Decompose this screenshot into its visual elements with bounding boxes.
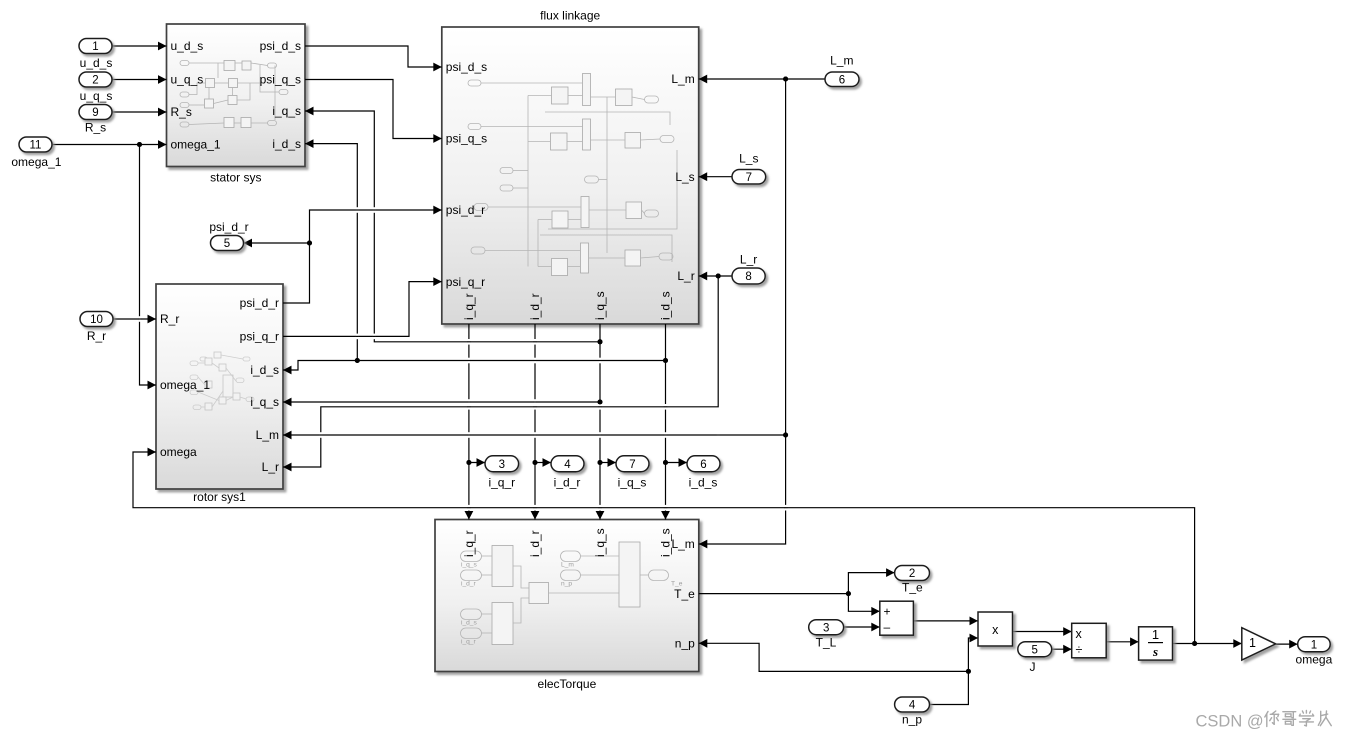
svg-text:psi_d_r: psi_d_r bbox=[240, 296, 279, 310]
svg-text:i_q_r: i_q_r bbox=[461, 639, 476, 646]
svg-text:R_s: R_s bbox=[171, 105, 192, 119]
svg-text:n_p: n_p bbox=[561, 581, 572, 588]
outport 4 i_d_r bbox=[551, 456, 584, 472]
svg-text:5: 5 bbox=[224, 238, 230, 250]
wire R_r port10 to rotor bbox=[113, 315, 156, 324]
sum block bbox=[880, 601, 914, 635]
title flux linkage bbox=[540, 9, 600, 23]
wire divide to integrator bbox=[1106, 637, 1138, 646]
wire crossing hops bbox=[138, 207, 787, 510]
svg-text:i_d_s: i_d_s bbox=[689, 476, 718, 490]
label L_s bbox=[739, 152, 758, 166]
svg-text:L_s: L_s bbox=[675, 170, 694, 184]
svg-text:psi_q_s: psi_q_s bbox=[446, 132, 487, 146]
subsystem rotor sys1 bbox=[156, 284, 283, 489]
wire psi_q_s stator to flux bbox=[305, 80, 442, 143]
wire i_d_r column flux to elecTorque bbox=[531, 324, 540, 520]
label J bbox=[1030, 660, 1036, 674]
inport 7 L_s bbox=[732, 170, 766, 185]
wire i_q_s feedback to rotor bbox=[283, 398, 600, 407]
svg-text:L_r: L_r bbox=[677, 269, 694, 283]
svg-text:÷: ÷ bbox=[1076, 643, 1083, 657]
svg-text:J: J bbox=[1030, 660, 1036, 674]
label T_L bbox=[816, 636, 837, 650]
svg-text:i_d_r: i_d_r bbox=[554, 476, 581, 490]
svg-text:s: s bbox=[1152, 644, 1158, 659]
svg-text:1: 1 bbox=[1152, 627, 1159, 642]
svg-text:i_q_s: i_q_s bbox=[593, 291, 607, 320]
svg-text:1: 1 bbox=[92, 41, 98, 53]
svg-text:3: 3 bbox=[499, 459, 505, 471]
svg-text:i_d_r: i_d_r bbox=[528, 530, 542, 557]
svg-text:L_s: L_s bbox=[739, 152, 758, 166]
inport 1 u_d_s bbox=[79, 39, 112, 54]
label i_q_r bbox=[488, 476, 515, 490]
svg-text:R_r: R_r bbox=[87, 329, 106, 343]
wire integrator to gain bbox=[1173, 639, 1242, 648]
svg-text:i_q_r: i_q_r bbox=[462, 293, 476, 320]
wire u_d_s port1 to stator bbox=[112, 42, 167, 51]
label R_s bbox=[85, 121, 106, 135]
svg-text:5: 5 bbox=[1032, 644, 1038, 656]
rotor sys1 port labels bbox=[160, 296, 279, 474]
wire T_e branch to port2 bbox=[848, 568, 894, 593]
svg-text:6: 6 bbox=[839, 74, 845, 86]
outport 1 omega bbox=[1298, 637, 1331, 652]
wire gain to port1 bbox=[1276, 640, 1298, 649]
watermark CSDN bbox=[1196, 711, 1332, 731]
wire psi_d_s stator to flux bbox=[305, 46, 442, 71]
product block x bbox=[978, 612, 1013, 646]
svg-text:n_p: n_p bbox=[902, 713, 922, 727]
svg-text:L_m: L_m bbox=[256, 428, 279, 442]
svg-text:L_r: L_r bbox=[262, 460, 279, 474]
wire i_q_r column flux to elecTorque bbox=[465, 324, 474, 520]
outport 3 i_q_r bbox=[485, 456, 519, 472]
wire L_m trunk to elecTorque bbox=[699, 79, 788, 548]
svg-text:R_r: R_r bbox=[160, 312, 179, 326]
svg-text:L_m: L_m bbox=[671, 537, 694, 551]
wire i_q_s column flux to elecTorque bbox=[596, 324, 605, 520]
svg-text:i_q_r: i_q_r bbox=[488, 476, 515, 490]
svg-text:i_d_s: i_d_s bbox=[250, 363, 279, 377]
svg-text:x: x bbox=[992, 623, 999, 637]
svg-text:i_q_s: i_q_s bbox=[461, 562, 477, 569]
outport 2 T_e bbox=[895, 566, 930, 581]
title elecTorque bbox=[538, 677, 597, 691]
svg-text:i_q_r: i_q_r bbox=[462, 530, 476, 557]
outport 5 psi_d_r bbox=[211, 236, 244, 251]
stator sys port labels bbox=[171, 39, 302, 152]
divide block bbox=[1072, 623, 1107, 658]
svg-text:L_m: L_m bbox=[671, 72, 694, 86]
svg-text:2: 2 bbox=[909, 568, 915, 580]
svg-text:x: x bbox=[1076, 627, 1083, 641]
svg-text:i_d_r: i_d_r bbox=[528, 293, 542, 320]
svg-text:11: 11 bbox=[30, 140, 42, 152]
svg-text:i_q_s: i_q_s bbox=[250, 395, 279, 409]
outport 7 i_q_s bbox=[616, 456, 649, 472]
svg-text:10: 10 bbox=[90, 314, 103, 326]
flux linkage port labels bbox=[446, 60, 695, 320]
svg-text:T_e: T_e bbox=[902, 581, 923, 595]
wire i_d_s branch to port6 bbox=[666, 458, 688, 467]
svg-text:i_d_s: i_d_s bbox=[659, 291, 673, 320]
svg-text:7: 7 bbox=[629, 459, 635, 471]
svg-text:4: 4 bbox=[909, 700, 916, 712]
svg-text:omega_1: omega_1 bbox=[160, 378, 210, 392]
label u_q_s bbox=[80, 89, 113, 103]
inport 11 omega_1 bbox=[19, 137, 52, 152]
svg-text:u_q_s: u_q_s bbox=[80, 89, 113, 103]
svg-text:elecTorque: elecTorque bbox=[538, 677, 597, 691]
svg-text:9: 9 bbox=[92, 107, 98, 119]
wire omega_1 port11 to stator bbox=[52, 140, 167, 149]
svg-text:omega: omega bbox=[1296, 653, 1333, 667]
svg-text:psi_d_r: psi_d_r bbox=[209, 220, 248, 234]
elecTorque interior preview bbox=[461, 542, 683, 646]
svg-text:8: 8 bbox=[745, 271, 751, 283]
wire psi_d_r branch to port5 bbox=[244, 239, 310, 248]
svg-text:L_m: L_m bbox=[830, 54, 853, 68]
wire L_r branch to rotor bbox=[283, 276, 718, 471]
label omega bbox=[1296, 653, 1333, 667]
svg-text:psi_d_r: psi_d_r bbox=[446, 203, 485, 217]
wire omega_1 branch to rotor bbox=[140, 145, 157, 390]
svg-text:stator sys: stator sys bbox=[210, 171, 261, 185]
svg-text:i_q_s: i_q_s bbox=[272, 104, 301, 118]
svg-text:psi_q_r: psi_q_r bbox=[240, 330, 279, 344]
wire R_s port9 to stator bbox=[112, 108, 167, 117]
wire L_m port6 to flux bbox=[699, 75, 825, 84]
wire i_d_r branch to port4 bbox=[535, 458, 551, 467]
svg-text:1: 1 bbox=[1249, 636, 1256, 650]
inport 3 T_L bbox=[809, 620, 844, 635]
label i_d_s bbox=[689, 476, 718, 490]
label psi_d_r bbox=[209, 220, 248, 234]
label L_m bbox=[830, 54, 853, 68]
wire omega feedback loop bbox=[133, 448, 1195, 644]
wire i_q_s feedback to stator bbox=[305, 107, 600, 342]
svg-text:i_q_s: i_q_s bbox=[593, 528, 607, 557]
rotor sys1 interior preview bbox=[190, 352, 254, 410]
svg-text:psi_q_r: psi_q_r bbox=[446, 275, 485, 289]
wire n_p branch to elecTorque bbox=[699, 639, 969, 672]
svg-text:2: 2 bbox=[92, 75, 98, 87]
svg-text:omega_1: omega_1 bbox=[11, 155, 61, 169]
svg-text:omega_1: omega_1 bbox=[171, 138, 221, 152]
svg-text:n_p: n_p bbox=[675, 637, 695, 651]
svg-text:3: 3 bbox=[823, 622, 829, 634]
svg-text:L_r: L_r bbox=[740, 253, 757, 267]
label R_r bbox=[87, 329, 106, 343]
svg-text:7: 7 bbox=[746, 172, 752, 184]
svg-text:1: 1 bbox=[1311, 639, 1317, 651]
svg-text:u_q_s: u_q_s bbox=[171, 73, 204, 87]
svg-text:i_d_s: i_d_s bbox=[272, 137, 301, 151]
label omega_1 bbox=[11, 155, 61, 169]
subsystem stator sys bbox=[167, 24, 306, 167]
elecTorque port labels bbox=[462, 528, 695, 650]
outport 6 i_d_s bbox=[687, 456, 720, 472]
wire i_q_r branch to port3 bbox=[469, 458, 485, 467]
inport 8 L_r bbox=[732, 268, 765, 284]
stator sys interior preview bbox=[180, 61, 288, 128]
svg-text:psi_q_s: psi_q_s bbox=[260, 73, 301, 87]
svg-text:i_d_r: i_d_r bbox=[461, 581, 476, 588]
label L_r bbox=[740, 253, 757, 267]
svg-text:–: – bbox=[884, 620, 891, 634]
wire n_p port4 to product bbox=[930, 634, 979, 705]
integrator block 1/s bbox=[1139, 627, 1173, 660]
svg-text:T_e: T_e bbox=[674, 587, 695, 601]
wire L_m branch to rotor bbox=[283, 431, 786, 440]
svg-text:R_s: R_s bbox=[85, 121, 106, 135]
inport 9 R_s bbox=[79, 105, 112, 120]
wire i_q_s branch to port7 bbox=[600, 458, 616, 467]
subsystem flux linkage bbox=[442, 27, 699, 324]
wire psi_d_r rotor to flux bbox=[283, 206, 442, 303]
svg-text:T_L: T_L bbox=[816, 636, 837, 650]
wire T_L port3 to sum bbox=[844, 623, 880, 632]
label i_q_s bbox=[618, 476, 647, 490]
inport 4 n_p bbox=[895, 697, 930, 712]
wire T_e elecTorque out bbox=[699, 591, 851, 596]
label i_d_r bbox=[554, 476, 581, 490]
wire i_d_s column flux to elecTorque bbox=[661, 324, 670, 520]
gain block triangle bbox=[1242, 628, 1276, 660]
svg-text:L_m: L_m bbox=[561, 562, 574, 569]
svg-text:u_d_s: u_d_s bbox=[171, 39, 204, 53]
svg-text:+: + bbox=[884, 604, 891, 618]
wire T_e branch to sum bbox=[848, 594, 879, 616]
svg-text:i_d_s: i_d_s bbox=[461, 620, 477, 627]
wire sum to product bbox=[913, 617, 978, 626]
wire J port5 to divide bbox=[1052, 645, 1072, 654]
svg-text:rotor sys1: rotor sys1 bbox=[193, 490, 246, 504]
inport 6 L_m bbox=[825, 72, 859, 87]
label T_e bbox=[902, 581, 923, 595]
svg-text:omega: omega bbox=[160, 445, 197, 459]
wire i_d_s branch to stator bbox=[305, 139, 357, 360]
label n_p bbox=[902, 713, 922, 727]
svg-text:4: 4 bbox=[564, 459, 571, 471]
inport 10 R_r bbox=[80, 312, 113, 327]
svg-text:psi_d_s: psi_d_s bbox=[446, 60, 487, 74]
label u_d_s bbox=[80, 56, 113, 70]
wire product to divide bbox=[1013, 627, 1072, 636]
svg-text:i_q_s: i_q_s bbox=[618, 476, 647, 490]
junction dots redraw bbox=[137, 77, 1197, 674]
wire L_s port7 to flux bbox=[699, 172, 732, 181]
svg-text:u_d_s: u_d_s bbox=[80, 56, 113, 70]
title stator sys bbox=[210, 171, 261, 185]
wire u_q_s port2 to stator bbox=[112, 75, 167, 84]
inport 5 J bbox=[1018, 642, 1052, 657]
svg-text:flux linkage: flux linkage bbox=[540, 9, 600, 23]
wire psi_q_r rotor to flux bbox=[283, 277, 442, 336]
inport 2 u_q_s bbox=[79, 72, 112, 87]
svg-text:CSDN @: CSDN @ bbox=[1196, 713, 1264, 731]
title rotor sys1 bbox=[193, 490, 246, 504]
svg-text:6: 6 bbox=[700, 459, 706, 471]
wire i_d_s feedback to rotor bbox=[283, 358, 666, 374]
wire L_r port8 to flux bbox=[699, 272, 732, 281]
subsystem elecTorque bbox=[435, 520, 699, 672]
svg-text:psi_d_s: psi_d_s bbox=[260, 39, 301, 53]
flux linkage interior preview bbox=[468, 74, 677, 276]
